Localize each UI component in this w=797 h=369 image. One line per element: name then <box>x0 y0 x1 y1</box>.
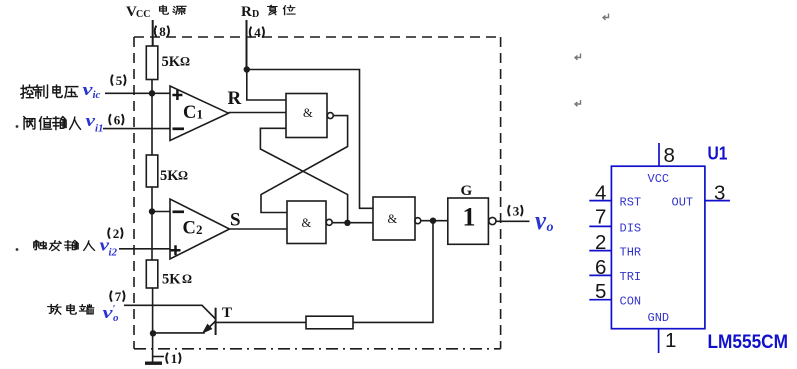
buffer gate G <box>448 198 496 244</box>
NAND gate D3 <box>373 197 421 240</box>
resistor R2 5K <box>146 155 188 187</box>
paragraph mark 2 <box>575 54 581 60</box>
svg-text:7: 7 <box>595 206 606 229</box>
label (3) <box>508 204 522 219</box>
svg-text:6: 6 <box>595 256 606 279</box>
svg-text:5: 5 <box>116 73 123 88</box>
svg-text:CON: CON <box>620 295 642 309</box>
svg-text:TRI: TRI <box>620 270 642 284</box>
svg-text:8: 8 <box>159 24 166 39</box>
svg-text:T: T <box>222 305 232 321</box>
label v_o output <box>535 206 554 235</box>
wire RD to NAND D1 input <box>247 70 286 101</box>
label (6) <box>109 113 123 128</box>
wire rail R3 to ground <box>152 288 154 362</box>
svg-text:S: S <box>230 210 241 231</box>
pin 3 lead OUT <box>705 200 730 202</box>
label (1) <box>166 351 180 366</box>
comparator C1 <box>170 86 229 141</box>
wire output pin 3 <box>496 220 530 222</box>
svg-text:C: C <box>183 103 196 123</box>
svg-text:1: 1 <box>463 203 476 232</box>
label (8) <box>155 24 169 39</box>
svg-text:D: D <box>252 9 259 20</box>
svg-text:&: & <box>303 106 313 120</box>
wire C1 output to NAND D1 <box>229 112 287 114</box>
pin (8) lead wire <box>152 20 154 46</box>
svg-text:R: R <box>228 88 242 109</box>
node junction dot C2 minus <box>149 208 155 214</box>
wire pin 7 discharge to transistor collector <box>124 305 216 319</box>
wire RD to gate D3 input <box>247 70 373 209</box>
label (4) <box>250 25 264 40</box>
svg-text:ic: ic <box>93 89 101 101</box>
svg-text:LM555CM: LM555CM <box>708 332 789 353</box>
svg-text:Ω: Ω <box>178 169 188 183</box>
svg-text:v: v <box>83 80 94 99</box>
node junction dot control voltage <box>149 90 155 96</box>
svg-text:5K: 5K <box>162 54 181 70</box>
wire pin 5 to C1 + input <box>105 92 170 94</box>
paragraph mark 3 <box>575 100 581 106</box>
svg-text:DIS: DIS <box>620 221 642 235</box>
svg-text:8: 8 <box>664 144 675 167</box>
svg-text:i2: i2 <box>109 247 118 259</box>
svg-text:Ω: Ω <box>182 272 192 286</box>
svg-text:2: 2 <box>113 226 120 241</box>
555 internal boundary dashed box <box>134 37 501 349</box>
svg-text:&: & <box>302 216 312 230</box>
svg-text:3: 3 <box>714 182 725 205</box>
wire pin 2 to C2 + input <box>119 248 170 250</box>
svg-text:R: R <box>241 4 252 20</box>
pin 6 lead <box>589 274 611 276</box>
svg-text:OUT: OUT <box>672 196 694 210</box>
wire base resistor to transistor base <box>216 321 306 323</box>
label RD 复位 (reset) <box>241 4 295 20</box>
label (7) <box>110 289 124 304</box>
label 控制电压 v_ic (control voltage) <box>21 80 101 101</box>
svg-text:THR: THR <box>620 246 642 260</box>
wire latch output down to base resistor <box>353 221 433 323</box>
svg-text:4: 4 <box>595 182 606 205</box>
wire rail to C2 - input <box>152 211 170 213</box>
svg-text:VCC: VCC <box>648 172 670 186</box>
NAND gate D1 <box>286 94 333 138</box>
pin (4) lead wire <box>246 20 248 70</box>
svg-text:5: 5 <box>595 280 606 303</box>
svg-text:2: 2 <box>196 222 203 237</box>
svg-text:RST: RST <box>620 196 642 210</box>
wire C2 output to NAND D2 <box>230 228 288 230</box>
pin 5 lead <box>589 299 611 301</box>
wire Vcc rail R1 to R2 <box>151 80 153 156</box>
wire D2 output to gate D3 <box>332 222 373 224</box>
svg-text:U1: U1 <box>708 144 728 164</box>
wire tick at ground pin 1 <box>153 356 164 358</box>
resistor R3 5K <box>146 260 192 288</box>
wire pin 6 to C1 - input <box>103 128 170 130</box>
wire D3 output to buffer G <box>421 220 448 222</box>
pin 2 lead <box>589 250 611 252</box>
svg-text:3: 3 <box>513 204 520 219</box>
pin 4 lead <box>589 200 611 202</box>
node junction dot RD <box>244 66 250 72</box>
svg-text:5K: 5K <box>162 272 181 288</box>
resistor R1 5K <box>146 46 190 80</box>
svg-text:1: 1 <box>171 351 178 366</box>
svg-text:C: C <box>183 219 196 239</box>
svg-text:o: o <box>113 312 119 324</box>
pin 8 lead VCC <box>658 143 660 166</box>
svg-text:6: 6 <box>114 113 121 128</box>
wire D1 output to D2 input (cross coupling) <box>261 116 348 213</box>
label (5) <box>111 73 125 88</box>
label 阀值输入 v_i1 (threshold input) <box>16 111 104 135</box>
svg-text:GND: GND <box>648 311 670 325</box>
wire D2 output to D1 input (cross coupling) <box>260 128 347 223</box>
ground symbol <box>145 362 162 365</box>
svg-text:1: 1 <box>665 329 676 352</box>
svg-text:G: G <box>461 183 473 199</box>
node junction dot emitter <box>150 330 156 336</box>
svg-text:v: v <box>535 206 546 235</box>
svg-text:o: o <box>547 220 554 235</box>
svg-text:2: 2 <box>595 231 606 254</box>
svg-text:5K: 5K <box>160 168 179 184</box>
label 放电端 v_o' (discharge) <box>48 303 119 324</box>
wire rail R2 to R3 <box>151 187 153 260</box>
comparator C2 <box>170 199 230 259</box>
svg-text:CC: CC <box>136 9 150 20</box>
label 触发输入 v_i2 (trigger input) <box>16 236 118 259</box>
label Vcc 电源 (power) <box>126 4 186 20</box>
svg-text:4: 4 <box>254 25 261 40</box>
pin 7 lead <box>589 225 611 227</box>
node junction dot output to base <box>430 218 436 224</box>
node junction dot latch output <box>344 220 350 226</box>
svg-text:1: 1 <box>197 107 204 122</box>
svg-text:i1: i1 <box>95 123 104 135</box>
label (2) <box>108 226 122 241</box>
transistor T <box>153 308 216 335</box>
resistor R4 base <box>306 316 353 329</box>
pin 1 lead GND <box>658 329 660 353</box>
paragraph mark 1 <box>603 14 609 20</box>
svg-text:7: 7 <box>115 289 122 304</box>
svg-text:Ω: Ω <box>180 55 190 69</box>
NAND gate D2 <box>287 201 332 244</box>
IC U1 LM555CM body <box>611 166 705 329</box>
svg-text:&: & <box>388 212 398 226</box>
